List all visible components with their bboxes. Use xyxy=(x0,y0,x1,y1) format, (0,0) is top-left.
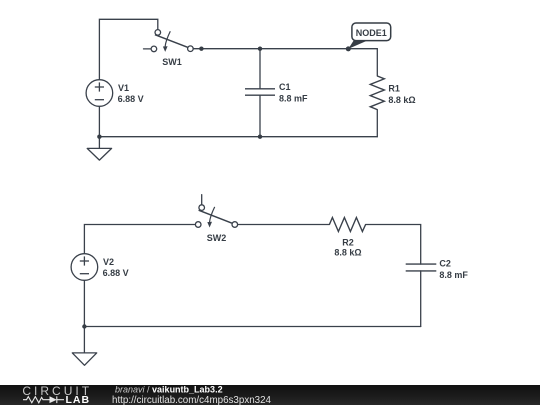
label C1 value xyxy=(279,82,308,103)
switch SW2 xyxy=(195,205,237,228)
label C2 value xyxy=(439,259,468,280)
wire bottom rail top circuit xyxy=(99,136,377,138)
svg-text:SW2: SW2 xyxy=(207,233,227,243)
wire SW2 common to R2 xyxy=(238,224,330,226)
wire V1 top to SW1 horizontal xyxy=(99,19,157,80)
node junction dot C1 bottom xyxy=(258,135,262,139)
voltage source V1 xyxy=(86,80,113,107)
resistor R2 xyxy=(329,218,365,232)
svg-text:8.8 mF: 8.8 mF xyxy=(279,94,308,104)
svg-text:branavi / vaikuntb_Lab3.2: branavi / vaikuntb_Lab3.2 xyxy=(115,385,223,395)
capacitor C1 xyxy=(245,89,275,95)
svg-text:C1: C1 xyxy=(279,82,291,92)
node flag NODE1 xyxy=(346,23,391,51)
svg-text:http://circuitlab.com/c4mp6s3p: http://circuitlab.com/c4mp6s3pxn324 xyxy=(112,395,272,405)
wire R1 bottom xyxy=(376,110,378,137)
ground bottom circuit xyxy=(72,353,96,365)
svg-text:SW1: SW1 xyxy=(162,57,182,67)
logo circuit symbol xyxy=(23,396,64,403)
wire R2 to C2 top xyxy=(366,225,421,265)
label R1 value xyxy=(388,84,415,105)
svg-text:C2: C2 xyxy=(439,259,451,269)
svg-text:V2: V2 xyxy=(103,257,114,267)
wire V1 bottom to ground node xyxy=(98,106,100,148)
resistor R1 xyxy=(370,76,384,110)
node junction dot SW1 output xyxy=(199,47,203,51)
wire V2 bottom to ground xyxy=(83,281,85,353)
wire SW2 top throw stub xyxy=(201,195,203,205)
ground top circuit xyxy=(87,148,111,160)
svg-text:R2: R2 xyxy=(342,238,354,248)
label V1 value xyxy=(118,83,144,104)
svg-text:8.8 kΩ: 8.8 kΩ xyxy=(388,95,415,105)
svg-text:LAB: LAB xyxy=(66,394,91,405)
svg-text:NODE1: NODE1 xyxy=(356,28,387,38)
label V2 value xyxy=(103,257,129,278)
wire bottom rail bottom circuit xyxy=(84,326,420,328)
voltage source V2 xyxy=(71,254,98,281)
wire V2 top to SW2 xyxy=(84,225,195,254)
svg-text:6.88 V: 6.88 V xyxy=(118,94,144,104)
wires bottom circuit xyxy=(84,195,420,353)
node junction dot V2 ground xyxy=(82,324,86,328)
wire SW1 common to R1 top xyxy=(193,49,377,76)
label R2 value xyxy=(334,238,361,258)
wire SW1 left throw stub xyxy=(144,48,152,50)
wire C1 top branch xyxy=(259,49,261,89)
wire C1 bottom branch xyxy=(259,95,261,137)
svg-text:6.88 V: 6.88 V xyxy=(103,268,129,278)
capacitor C2 xyxy=(406,264,437,271)
svg-text:8.8 kΩ: 8.8 kΩ xyxy=(334,247,361,257)
switch SW1 xyxy=(151,30,193,52)
node junction dot C1 top xyxy=(258,47,262,51)
footer bar xyxy=(0,385,540,405)
wire C2 bottom branch xyxy=(420,271,422,327)
svg-text:R1: R1 xyxy=(388,84,400,94)
svg-text:V1: V1 xyxy=(118,83,129,93)
node junction dot V1 ground xyxy=(97,135,101,139)
svg-text:8.8 mF: 8.8 mF xyxy=(439,270,468,280)
